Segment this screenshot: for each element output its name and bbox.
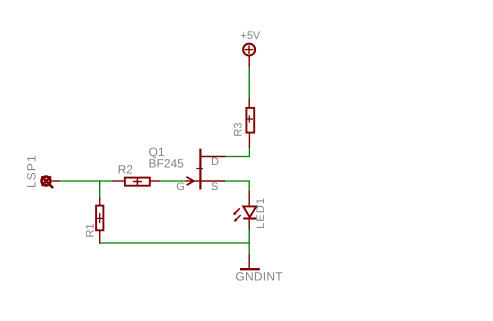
svg-text:LED1: LED1 (255, 197, 267, 229)
svg-text:R3: R3 (233, 123, 245, 137)
svg-text:R1: R1 (84, 223, 96, 237)
svg-text:D: D (211, 156, 219, 168)
svg-text:BF245: BF245 (149, 157, 185, 171)
svg-text:R2: R2 (118, 162, 134, 176)
svg-text:GNDINT: GNDINT (235, 269, 283, 283)
svg-text:+5V: +5V (240, 30, 261, 42)
svg-text:G: G (176, 181, 185, 193)
svg-text:S: S (211, 181, 218, 193)
svg-text:LSP1: LSP1 (24, 154, 38, 188)
